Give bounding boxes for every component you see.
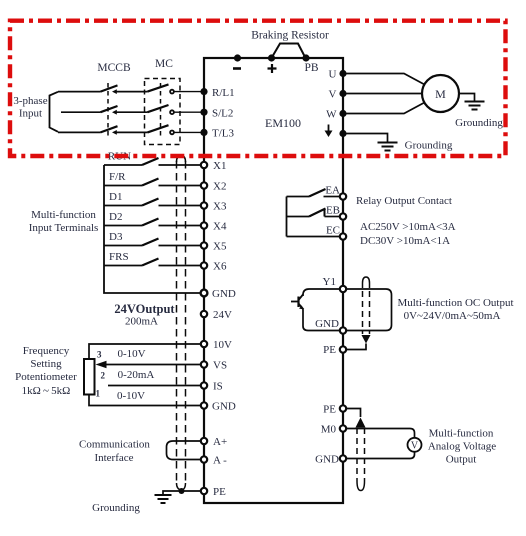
wire phase R to breaker (58, 91, 101, 93)
svg-text:Y1: Y1 (323, 276, 336, 288)
MC pole 1 contact circle (170, 90, 174, 94)
svg-text:2: 2 (101, 371, 106, 381)
svg-text:Braking Resistor: Braking Resistor (251, 30, 329, 42)
wire D2 to X4 (159, 225, 201, 227)
terminal IS ring (201, 382, 207, 388)
OC output right bracket (347, 289, 392, 331)
MCCB pole 2 blade (101, 106, 118, 112)
svg-text:0V~24V/0mA~50mA: 0V~24V/0mA~50mA (404, 310, 501, 322)
svg-text:IS: IS (213, 381, 223, 393)
wiper arrow wire VS (105, 364, 201, 366)
switch D3 wire (104, 245, 142, 247)
wire breaker to MC pole 3 (116, 131, 148, 133)
svg-text:0-20mA: 0-20mA (118, 369, 155, 381)
shield cable top arch (177, 156, 186, 163)
svg-text:Communication: Communication (79, 439, 150, 451)
svg-text:F/R: F/R (109, 171, 126, 183)
svg-text:M0: M0 (321, 424, 337, 436)
wire GND to voltmeter (347, 452, 415, 459)
svg-text:GND: GND (212, 401, 236, 413)
minus sign label (233, 67, 241, 70)
svg-text:Multi-function: Multi-function (429, 428, 494, 440)
terminal EC ring (340, 233, 346, 239)
ground symbol (inverter chassis) (378, 143, 398, 151)
svg-text:Output: Output (446, 454, 477, 466)
svg-text:D1: D1 (109, 191, 122, 203)
svg-text:X2: X2 (213, 181, 226, 193)
switch FRS wire (104, 265, 142, 267)
wire MC to T/L3 (174, 131, 200, 133)
ground symbol (bottom left) (155, 495, 172, 503)
OC transistor base bar (297, 297, 299, 308)
wire PE to ground (bottom left) (163, 491, 201, 495)
MC pole 3 contact circle (170, 131, 174, 135)
svg-text:X3: X3 (213, 201, 227, 213)
EM100 inverter box (204, 58, 343, 503)
multi-function input common bus (104, 165, 201, 293)
terminal 24V ring (201, 311, 207, 317)
OC transistor base lead (291, 301, 299, 303)
svg-text:PE: PE (323, 404, 336, 416)
svg-text:Setting: Setting (30, 358, 62, 370)
svg-text:Input: Input (19, 108, 42, 120)
wire pot pin3 to 10V (89, 344, 201, 359)
svg-text:V: V (329, 89, 337, 101)
svg-text:X6: X6 (213, 261, 227, 273)
MC pole 2 blade (148, 105, 169, 112)
relay EB wire (287, 216, 310, 218)
motor ground symbol (465, 102, 485, 110)
terminal X6 ring (201, 262, 207, 268)
wire breaker to MC pole 2 (116, 111, 148, 113)
MC mechanical linkage (dashed) (160, 83, 162, 137)
MCCB pole 3 blade (101, 126, 118, 132)
svg-text:GND: GND (212, 288, 236, 300)
svg-text:VS: VS (213, 360, 227, 372)
wire MC to R/L1 (174, 91, 200, 93)
svg-text:PB: PB (304, 62, 318, 74)
wire M0 to voltmeter (347, 429, 415, 438)
svg-text:D3: D3 (109, 231, 123, 243)
svg-text:T/L3: T/L3 (212, 128, 234, 140)
OC transistor emitter arrow (299, 306, 304, 310)
svg-text:Relay Output Contact: Relay Output Contact (356, 195, 452, 207)
terminal plus dot (268, 54, 275, 61)
relay EA blade (309, 189, 326, 197)
switch FRS blade (142, 259, 159, 266)
svg-text:AC250V >10mA<3A: AC250V >10mA<3A (360, 221, 456, 233)
svg-text:MCCB: MCCB (97, 62, 131, 74)
MCCB pole 1 blade (101, 85, 118, 91)
MC pole 1 blade (148, 84, 169, 91)
terminal PE ring (201, 488, 207, 494)
shield cable bottom convergence to PE (177, 483, 186, 490)
svg-text:1: 1 (96, 389, 101, 399)
switch D1 blade (142, 199, 159, 206)
plus sign label (268, 64, 277, 73)
svg-text:Grounding: Grounding (92, 502, 140, 514)
wire PE to shield arrow (347, 409, 361, 418)
switch D3 blade (142, 239, 159, 246)
shield drain arrow (down) (362, 335, 371, 344)
svg-text:200mA: 200mA (125, 316, 158, 328)
terminal PB dot (302, 54, 309, 61)
svg-text:Grounding: Grounding (455, 117, 503, 129)
shielded pair arch (OC output) (363, 277, 370, 288)
relay EB bar (324, 209, 326, 217)
MCCB pole 3 arrow contact (112, 130, 117, 135)
terminal X1 ring (201, 162, 207, 168)
svg-text:W: W (326, 109, 337, 121)
terminal A- ring (201, 456, 207, 462)
communication loop wire A+ to A- (167, 441, 201, 460)
terminal X3 ring (201, 202, 207, 208)
relay EA wire (287, 196, 310, 198)
svg-text:S/L2: S/L2 (212, 107, 233, 119)
MC contactor dashed box (145, 79, 181, 145)
potentiometer body (84, 359, 95, 395)
wire D3 to X5 (159, 245, 201, 247)
OC transistor emitter (299, 304, 304, 310)
svg-text:3: 3 (97, 350, 102, 360)
svg-text:GND: GND (315, 318, 339, 330)
terminal Y1 ring (340, 286, 346, 292)
OC transistor collector (299, 295, 304, 301)
wire IS (free end) (108, 385, 201, 387)
terminal minus dot (234, 54, 241, 61)
svg-text:10V: 10V (213, 339, 232, 351)
svg-text:R/L1: R/L1 (212, 87, 235, 99)
MC pole 2 contact circle (170, 110, 174, 114)
switch F/R blade (142, 179, 159, 186)
svg-text:EB: EB (326, 205, 340, 217)
svg-text:Frequency: Frequency (23, 345, 70, 357)
shielded pair bottom loop (357, 481, 365, 491)
wire pot pin1 to GND (89, 395, 201, 406)
svg-text:EC: EC (326, 225, 340, 237)
terminal GND ring (analog out) (340, 455, 346, 461)
wire PE to ground (347, 134, 388, 143)
switch RUN blade (142, 158, 159, 165)
terminal GND(digital) ring (201, 290, 208, 297)
terminal S/L2 dot (200, 109, 207, 116)
relay EB stub (325, 216, 340, 218)
relay EC wire (287, 236, 340, 238)
svg-text:Interface: Interface (94, 452, 133, 464)
svg-text:Multi-function OC Output: Multi-function OC Output (397, 297, 513, 309)
switch F/R wire (104, 185, 142, 187)
svg-text:PE: PE (323, 344, 336, 356)
shield cable pair (left, dashed) (176, 161, 178, 483)
terminal VS ring (201, 361, 207, 367)
relay EA stub (324, 196, 340, 198)
svg-text:24VOutput: 24VOutput (114, 302, 175, 316)
svg-text:0-10V: 0-10V (117, 390, 145, 402)
shielded pair dashes (OC output) (363, 291, 370, 334)
shield drain junction dot (179, 488, 185, 494)
svg-text:Analog Voltage: Analog Voltage (428, 441, 496, 453)
terminal M0 ring (340, 425, 346, 431)
terminal U dot (339, 70, 346, 77)
switch D2 blade (142, 219, 159, 226)
svg-text:X4: X4 (213, 221, 227, 233)
voltmeter circle (408, 438, 422, 452)
terminal A+ ring (201, 438, 207, 444)
wire phase T to breaker (58, 131, 101, 133)
relay EB blade (309, 209, 326, 217)
inverter PE arrow symbol (328, 125, 330, 132)
svg-text:A -: A - (213, 455, 227, 467)
svg-text:U: U (329, 69, 337, 81)
wire motor to ground (459, 94, 475, 102)
braking resistor hump (+ to PB) (272, 44, 306, 59)
wire breaker to MC pole 1 (116, 91, 148, 93)
svg-text:0-10V: 0-10V (117, 348, 145, 360)
svg-text:1kΩ ~ 5kΩ: 1kΩ ~ 5kΩ (22, 385, 71, 397)
terminal 10V ring (201, 341, 207, 347)
svg-text:MC: MC (155, 58, 173, 70)
svg-text:DC30V >10mA<1A: DC30V >10mA<1A (360, 235, 450, 247)
wire RUN to X1 (159, 164, 201, 166)
OC output left branch wire (303, 289, 340, 296)
wire D1 to X3 (159, 205, 201, 207)
wire MC to S/L2 (174, 111, 200, 113)
terminal EA ring (340, 193, 346, 199)
shield arrow (up) (356, 418, 366, 428)
MCCB mechanical linkage (dashed) (107, 83, 109, 137)
svg-text:D2: D2 (109, 211, 122, 223)
terminal PE ring (analog) (340, 405, 346, 411)
motor M circle (422, 75, 459, 112)
terminal PE ring (shield) (340, 346, 346, 352)
shielded pair dashes (analog) (357, 428, 365, 481)
MC pole 3 blade (148, 125, 169, 132)
wire W to motor (347, 103, 425, 114)
terminal X4 ring (201, 222, 207, 228)
OC branch down to GND wire (303, 310, 340, 331)
wire FRS to X6 (159, 265, 201, 267)
svg-text:EM100: EM100 (265, 116, 301, 130)
terminal GND ring (OC) (340, 327, 346, 333)
wire V to motor (347, 93, 423, 95)
wire U to motor (347, 74, 425, 85)
svg-text:Potentiometer: Potentiometer (15, 371, 77, 383)
terminal PE(power) dot (339, 130, 346, 137)
switch D2 wire (104, 225, 142, 227)
terminal V dot (339, 90, 346, 97)
svg-text:A+: A+ (213, 436, 227, 448)
terminal X5 ring (201, 242, 207, 248)
svg-text:V: V (411, 441, 419, 452)
svg-text:EA: EA (325, 185, 340, 197)
wiper arrowhead (96, 361, 107, 369)
terminal X2 ring (201, 182, 207, 188)
red dashed power-section border (10, 21, 506, 156)
terminal R/L1 dot (200, 88, 207, 95)
terminal EB ring (340, 213, 346, 219)
wire F/R to X2 (159, 185, 201, 187)
svg-text:X5: X5 (213, 241, 227, 253)
svg-text:PE: PE (213, 486, 226, 498)
MCCB pole 2 arrow contact (112, 110, 117, 115)
svg-text:M: M (435, 87, 446, 101)
relay common bar (286, 197, 288, 237)
svg-text:24V: 24V (213, 309, 232, 321)
terminal GND(analog) ring (201, 402, 207, 408)
svg-text:Input Terminals: Input Terminals (29, 222, 99, 234)
terminal T/L3 dot (200, 129, 207, 136)
3-phase input bracket (50, 92, 59, 132)
svg-text:GND: GND (315, 454, 339, 466)
svg-text:Multi-function: Multi-function (31, 209, 96, 221)
svg-text:Grounding: Grounding (405, 140, 453, 152)
svg-text:FRS: FRS (109, 251, 129, 263)
MCCB pole 1 arrow contact (112, 89, 117, 94)
wire phase S to breaker (61, 111, 101, 113)
svg-text:X1: X1 (213, 160, 226, 172)
switch RUN wire (104, 164, 142, 166)
terminal W dot (339, 110, 346, 117)
switch D1 wire (104, 205, 142, 207)
shield drain wire to PE (347, 344, 367, 350)
svg-text:3-phase: 3-phase (13, 95, 47, 107)
